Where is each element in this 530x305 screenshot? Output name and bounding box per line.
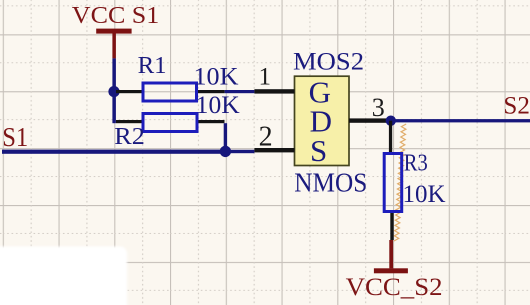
resistor R2: [114, 92, 239, 150]
svg-text:VCC_S2: VCC_S2: [346, 274, 443, 301]
pin left: [116, 90, 142, 93]
node B junction: [220, 146, 231, 157]
svg-text:MOS2: MOS2: [293, 49, 364, 76]
svg-text:10K: 10K: [194, 63, 239, 90]
svg-text:NMOS: NMOS: [294, 167, 367, 198]
wire R2 right pin down to node B: [224, 123, 227, 150]
svg-text:S2: S2: [503, 93, 530, 120]
wire R1 to MOS2 gate pin: [225, 90, 255, 93]
svg-text:10K: 10K: [403, 181, 446, 208]
wire node C down to R3: [389, 121, 392, 152]
pin 1 (gate) stub: [254, 63, 294, 93]
svg-text:1: 1: [259, 63, 272, 90]
svg-text:S1: S1: [2, 121, 28, 152]
svg-text:R1: R1: [138, 53, 167, 79]
wire VCC_S1 stem down to node A and on to R2 row: [112, 58, 116, 123]
power VCC_S1: [72, 3, 160, 58]
wire node B to MOS2 source pin: [230, 150, 254, 153]
pin left: [116, 120, 142, 123]
pin 3 (drain) stub: [349, 93, 389, 123]
svg-text:R2: R2: [114, 124, 145, 150]
svg-text:VCC S1: VCC S1: [72, 3, 160, 29]
svg-text:R3: R3: [404, 151, 428, 177]
svg-text:3: 3: [372, 93, 385, 122]
squiggle annotation artifact: [394, 124, 406, 241]
svg-text:S: S: [310, 133, 327, 168]
pin right: [198, 90, 225, 93]
white patch (erased area bottom-left): [0, 247, 127, 305]
svg-text:10K: 10K: [196, 92, 240, 119]
pin bottom: [390, 213, 393, 240]
wire net S2 horizontal: [391, 119, 530, 122]
node A junction: [108, 86, 119, 97]
resistor R3: [384, 151, 445, 241]
svg-text:2: 2: [259, 122, 273, 153]
transistor MOS2 (NMOS): [293, 49, 367, 198]
pin 2 (source) stub: [254, 122, 294, 153]
node C junction: [386, 116, 396, 126]
resistor R1: [116, 53, 239, 101]
power VCC_S2: [346, 240, 443, 301]
pin right: [198, 120, 224, 123]
wire net S1 horizontal: [2, 150, 230, 154]
